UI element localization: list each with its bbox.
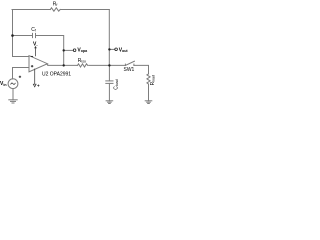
svg-text:Cload: Cload <box>113 79 119 89</box>
svg-text:Riso: Riso <box>78 58 86 64</box>
svg-text:Vout: Vout <box>119 47 129 53</box>
svg-text:Rf: Rf <box>53 1 58 7</box>
svg-text:Vin: Vin <box>0 81 7 87</box>
svg-text:V-: V- <box>33 41 38 47</box>
svg-text:Rload: Rload <box>150 75 156 85</box>
svg-text:Cf: Cf <box>31 27 36 33</box>
svg-text:U2 OPA2991: U2 OPA2991 <box>42 71 71 77</box>
svg-text:Vopa: Vopa <box>77 47 88 53</box>
svg-text:SW1: SW1 <box>124 67 135 73</box>
